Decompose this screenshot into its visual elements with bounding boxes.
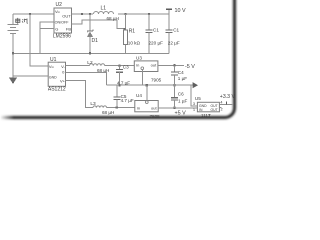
svg-text:7905: 7905	[151, 78, 162, 83]
svg-text:220 µF: 220 µF	[149, 41, 164, 46]
svg-text:in: in	[137, 106, 140, 111]
wire U3 out -5V	[158, 64, 184, 66]
svg-text:68 µH: 68 µH	[102, 110, 114, 115]
node switch junction	[81, 13, 83, 15]
svg-text:22 µF: 22 µF	[168, 41, 180, 46]
wire V- to L2	[66, 65, 90, 67]
svg-text:C3: C3	[123, 65, 129, 70]
svg-text:in: in	[136, 63, 139, 68]
wire 12V feed down to U1	[30, 14, 48, 66]
pin 2 stub	[219, 107, 221, 109]
svg-text:IN: IN	[199, 108, 203, 112]
IC U1 AS1212	[48, 57, 66, 92]
wire U1 GND to ground	[13, 75, 48, 77]
svg-text:-5 V: -5 V	[185, 64, 195, 70]
inductor L3 68uH	[93, 106, 107, 108]
node junction to U1 Vin	[29, 13, 31, 15]
svg-text:ON/OFF: ON/OFF	[55, 21, 70, 25]
wire U2 OUT switch node	[72, 13, 94, 15]
svg-text:1: 1	[193, 108, 195, 112]
svg-text:+3.3 V: +3.3 V	[220, 94, 236, 100]
battery BT	[12, 14, 14, 24]
svg-text:R1: R1	[129, 29, 136, 35]
capacitor C5	[116, 85, 118, 97]
IC U2 LM2596	[53, 2, 72, 40]
svg-text:C4: C4	[178, 70, 184, 75]
svg-text:Vin: Vin	[55, 9, 60, 14]
svg-text:C1: C1	[173, 28, 179, 33]
wire U4 out +5V to U5 in	[158, 107, 197, 109]
ground arrow	[12, 53, 14, 78]
svg-text:U3: U3	[136, 56, 142, 61]
svg-text:L3: L3	[90, 101, 96, 107]
wire 0 common from U1	[66, 73, 107, 86]
IC U5 1117	[195, 96, 220, 118]
svg-text:7805: 7805	[150, 114, 161, 119]
wire L2 to U3 in	[105, 65, 135, 67]
svg-text:U5: U5	[195, 96, 201, 101]
svg-text:10 kΩ: 10 kΩ	[128, 41, 141, 46]
svg-text:out: out	[151, 106, 157, 111]
wire V+ from U1 down to L3	[66, 81, 94, 108]
svg-text:OUT: OUT	[211, 108, 218, 112]
svg-text:FB: FB	[66, 26, 71, 31]
wire U4 gnd stem	[146, 85, 148, 101]
inductor L1 68uH	[94, 12, 114, 15]
svg-text:V-: V-	[61, 64, 65, 69]
svg-text:1117: 1117	[201, 113, 211, 118]
wire rail to U5 GND pin 3	[191, 85, 197, 106]
capacitor C6	[174, 85, 176, 97]
inductor L2 68uH	[90, 64, 105, 66]
wire ground rail top section	[13, 52, 169, 54]
diode D1	[89, 14, 91, 31]
IC U3 7905	[134, 56, 161, 83]
svg-text:L1: L1	[101, 6, 107, 12]
svg-text:+5 V: +5 V	[175, 111, 187, 117]
svg-text:3: 3	[193, 102, 195, 106]
svg-text:4.7 µF: 4.7 µF	[121, 98, 134, 103]
wire output node 10V	[118, 13, 169, 15]
svg-text:OUT: OUT	[62, 14, 71, 19]
svg-text:V+: V+	[60, 78, 66, 83]
svg-text:68 µH: 68 µH	[107, 16, 119, 21]
terminal 10V	[168, 9, 170, 14]
svg-text:2: 2	[221, 108, 223, 112]
svg-text:L2: L2	[87, 60, 93, 66]
svg-text:C1: C1	[153, 28, 159, 33]
capacitor C1 220uF	[148, 14, 150, 30]
svg-text:U2: U2	[56, 2, 63, 8]
common rail arrow	[193, 82, 198, 88]
border frame	[0, 0, 235, 118]
svg-text:C6: C6	[178, 91, 184, 96]
wire common rail	[107, 84, 193, 86]
svg-text:out: out	[151, 63, 157, 68]
wire ON/OFF and G to ground	[40, 22, 54, 53]
resistor R1	[125, 14, 127, 30]
capacitor C1 22uF	[168, 14, 170, 30]
border fade bottom-left	[0, 108, 14, 127]
svg-text:AS1212: AS1212	[48, 86, 66, 92]
svg-text:U1: U1	[50, 57, 57, 63]
IC U4 7805	[135, 93, 160, 119]
svg-text:10 V: 10 V	[175, 8, 186, 14]
wire U3 gnd stem	[141, 70, 143, 86]
wire G pin	[40, 28, 54, 30]
svg-text:1 µF: 1 µF	[178, 76, 187, 81]
svg-text:Vin: Vin	[49, 64, 54, 69]
svg-text:G: G	[55, 27, 58, 32]
svg-text:4: 4	[220, 100, 222, 104]
wire top rail battery to U2	[13, 13, 54, 15]
wire U5 OUT pin 4 to 3.3V	[219, 104, 232, 106]
wire FB feedback	[72, 20, 126, 29]
capacitor C4	[174, 65, 176, 72]
svg-text:LM2596: LM2596	[53, 34, 71, 40]
svg-text:1 µF: 1 µF	[178, 98, 187, 103]
svg-text:D1: D1	[92, 38, 99, 44]
capacitor C3	[119, 66, 121, 70]
svg-text:U4: U4	[136, 93, 142, 98]
wire L3 to U4 in	[107, 107, 135, 109]
battery label 电池	[16, 18, 28, 24]
svg-text:GND: GND	[49, 75, 57, 79]
